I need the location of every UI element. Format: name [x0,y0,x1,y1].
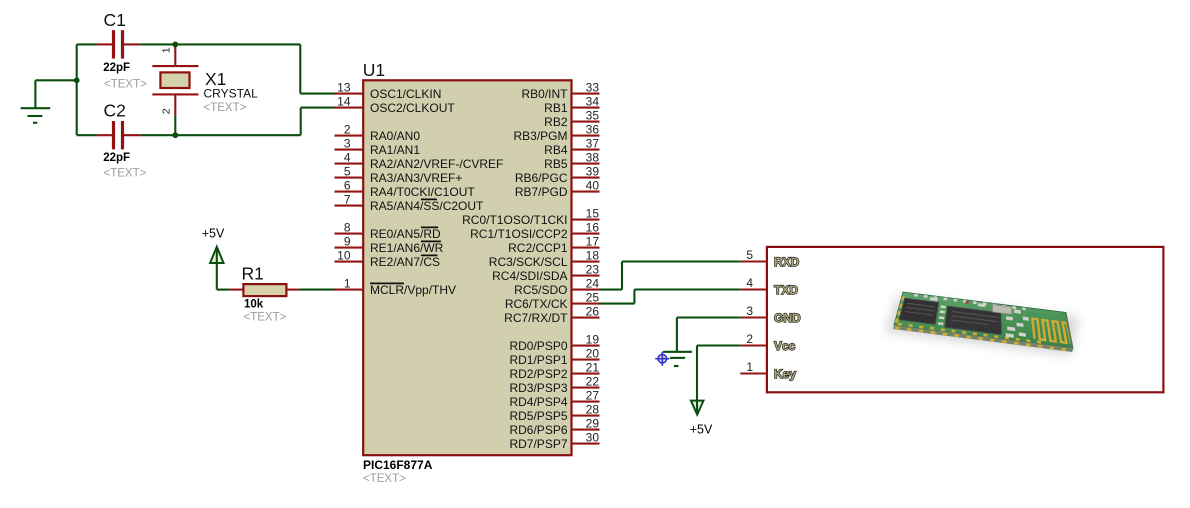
svg-text:33: 33 [586,81,600,95]
svg-text:<TEXT>: <TEXT> [104,168,147,180]
svg-text:21: 21 [586,361,600,375]
svg-text:GND: GND [774,311,801,325]
svg-text:36: 36 [586,123,600,137]
svg-text:RB4: RB4 [544,143,568,157]
svg-text:R1: R1 [242,263,264,283]
svg-text:27: 27 [586,389,600,403]
svg-text:RXD: RXD [774,255,800,269]
svg-text:RC0/T1OSO/T1CKI: RC0/T1OSO/T1CKI [462,213,567,227]
svg-text:RD3/PSP3: RD3/PSP3 [509,381,567,395]
svg-text:16: 16 [586,221,600,235]
svg-text:37: 37 [586,137,600,151]
svg-text:RC7/RX/DT: RC7/RX/DT [504,311,568,325]
svg-text:RA4/T0CKI/C1OUT: RA4/T0CKI/C1OUT [370,185,475,199]
svg-text:15: 15 [586,207,600,221]
svg-text:C2: C2 [104,101,126,121]
svg-text:RC5/SDO: RC5/SDO [514,283,567,297]
svg-text:RC3/SCK/SCL: RC3/SCK/SCL [489,255,568,269]
svg-text:PIC16F877A: PIC16F877A [363,458,433,472]
svg-text:8: 8 [344,221,351,235]
svg-text:2: 2 [344,123,351,137]
svg-text:RA2/AN2/VREF-/CVREF: RA2/AN2/VREF-/CVREF [370,157,503,171]
svg-text:RC2/CCP1: RC2/CCP1 [508,241,568,255]
svg-text:U1: U1 [363,60,385,80]
svg-text:RB7/PGD: RB7/PGD [515,185,568,199]
svg-text:RB6/PGC: RB6/PGC [515,171,568,185]
svg-text:18: 18 [586,249,600,263]
svg-text:<TEXT>: <TEXT> [204,102,247,114]
svg-text:22pF: 22pF [103,62,130,74]
svg-text:C1: C1 [104,10,126,30]
svg-text:RE0/AN5/RD: RE0/AN5/RD [370,227,441,241]
svg-text:RB5: RB5 [544,157,568,171]
svg-text:34: 34 [586,95,600,109]
svg-text:RD7/PSP7: RD7/PSP7 [509,437,567,451]
svg-text:40: 40 [586,179,600,193]
svg-text:<TEXT>: <TEXT> [244,311,287,323]
svg-text:23: 23 [586,263,600,277]
svg-text:9: 9 [344,235,351,249]
svg-text:17: 17 [586,235,600,249]
svg-text:2: 2 [161,108,173,114]
svg-text:25: 25 [586,291,600,305]
svg-text:RD6/PSP6: RD6/PSP6 [509,423,567,437]
svg-text:RB1: RB1 [544,101,568,115]
svg-text:10: 10 [337,249,351,263]
svg-text:5: 5 [746,248,753,262]
svg-text:RC1/T1OSI/CCP2: RC1/T1OSI/CCP2 [470,227,568,241]
svg-text:3: 3 [344,137,351,151]
svg-text:RD5/PSP5: RD5/PSP5 [509,409,567,423]
svg-text:22pF: 22pF [103,152,130,164]
svg-text:10k: 10k [244,298,264,310]
svg-text:<TEXT>: <TEXT> [363,473,406,485]
svg-text:1: 1 [161,47,173,53]
svg-text:4: 4 [746,276,753,290]
svg-text:28: 28 [586,403,600,417]
svg-text:35: 35 [586,109,600,123]
svg-text:TXD: TXD [774,283,798,297]
svg-text:CRYSTAL: CRYSTAL [204,86,259,100]
svg-text:20: 20 [586,347,600,361]
svg-text:24: 24 [586,277,600,291]
svg-text:RE1/AN6/WR: RE1/AN6/WR [370,241,444,255]
svg-text:2: 2 [746,332,753,346]
svg-text:Vcc: Vcc [774,339,796,353]
svg-text:RC6/TX/CK: RC6/TX/CK [505,297,568,311]
svg-text:RD0/PSP0: RD0/PSP0 [509,339,567,353]
svg-text:6: 6 [344,179,351,193]
svg-text:RD1/PSP1: RD1/PSP1 [509,353,567,367]
svg-text:RE2/AN7/CS: RE2/AN7/CS [370,255,440,269]
svg-text:RB0/INT: RB0/INT [521,87,568,101]
svg-text:26: 26 [586,305,600,319]
svg-text:OSC1/CLKIN: OSC1/CLKIN [370,87,441,101]
svg-text:RB2: RB2 [544,115,568,129]
svg-text:3: 3 [746,304,753,318]
svg-text:7: 7 [344,193,351,207]
svg-text:MCLR/Vpp/THV: MCLR/Vpp/THV [370,283,456,297]
svg-text:1: 1 [746,360,753,374]
svg-text:39: 39 [586,165,600,179]
svg-text:<TEXT>: <TEXT> [104,79,147,91]
svg-text:1: 1 [344,277,351,291]
svg-text:RC4/SDI/SDA: RC4/SDI/SDA [492,269,567,283]
svg-text:+5V: +5V [202,227,225,241]
svg-text:30: 30 [586,431,600,445]
svg-text:RA5/AN4/SS/C2OUT: RA5/AN4/SS/C2OUT [370,199,484,213]
svg-text:RA1/AN1: RA1/AN1 [370,143,420,157]
svg-text:5: 5 [344,165,351,179]
svg-text:RA3/AN3/VREF+: RA3/AN3/VREF+ [370,171,462,185]
svg-text:29: 29 [586,417,600,431]
svg-text:14: 14 [337,95,351,109]
svg-text:22: 22 [586,375,600,389]
svg-text:RB3/PGM: RB3/PGM [513,129,567,143]
svg-text:Key: Key [774,367,796,381]
svg-text:RA0/AN0: RA0/AN0 [370,129,420,143]
svg-text:OSC2/CLKOUT: OSC2/CLKOUT [370,101,455,115]
svg-text:RD4/PSP4: RD4/PSP4 [509,395,567,409]
svg-text:19: 19 [586,333,600,347]
svg-text:38: 38 [586,151,600,165]
svg-text:RD2/PSP2: RD2/PSP2 [509,367,567,381]
svg-text:4: 4 [344,151,351,165]
svg-text:+5V: +5V [690,423,713,437]
svg-text:13: 13 [337,81,351,95]
